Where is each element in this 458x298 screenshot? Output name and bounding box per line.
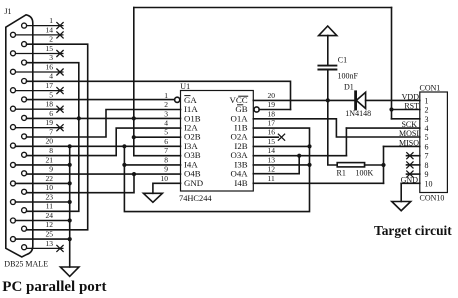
svg-text:11: 11 xyxy=(46,202,53,211)
wire U1 pin5 lead xyxy=(134,136,181,138)
node VCC power symbol xyxy=(319,26,337,36)
svg-text:10: 10 xyxy=(425,179,433,188)
pin 14 lead DB25 xyxy=(16,34,64,36)
no-connect X CON1 pin 9 xyxy=(406,171,413,178)
pin numbers DB25 1-25 xyxy=(46,16,54,248)
svg-text:9: 9 xyxy=(49,165,53,174)
svg-text:24: 24 xyxy=(46,211,54,220)
junction R1 right lead on MISO drop xyxy=(381,163,385,167)
svg-text:20: 20 xyxy=(268,91,276,100)
wire CON1 pin2 RST lead xyxy=(392,109,420,111)
wire R1 right lead xyxy=(365,164,384,166)
svg-text:2: 2 xyxy=(425,106,429,115)
pin GB bubble xyxy=(254,107,259,112)
svg-text:19: 19 xyxy=(268,100,276,109)
junction U1 pin13 on GND input bus xyxy=(307,163,311,167)
resistor R1 body xyxy=(337,163,364,167)
svg-text:6: 6 xyxy=(425,142,429,151)
junction DB25 pin22 on GND bus xyxy=(68,181,72,185)
wire DB25 pin25 xyxy=(15,238,69,240)
pin numbers CON1 1-10 xyxy=(425,96,433,188)
pin 19 circle DB25 xyxy=(11,125,16,130)
svg-text:25: 25 xyxy=(46,230,54,239)
no-connect X CON1 pin 7 xyxy=(406,152,413,159)
wire MISO drop V3 xyxy=(383,146,385,183)
wire DB25 pin4 to GB enable row xyxy=(27,81,291,109)
svg-text:MISO: MISO xyxy=(399,139,419,148)
wire D1 anode to CON1 VDD xyxy=(366,99,420,101)
svg-text:18: 18 xyxy=(46,100,54,109)
no-connect X DB25 pin 15 xyxy=(56,50,63,57)
pin 16 circle DB25 xyxy=(11,69,16,74)
ground symbol below DB25 xyxy=(60,267,79,276)
net name labels xyxy=(399,92,419,184)
svg-text:C1: C1 xyxy=(338,55,347,64)
pin no-connect stub lines DB25 xyxy=(16,26,64,249)
ground symbol below U1 xyxy=(143,193,162,202)
wire DB25 pin6 to U1 pin3 xyxy=(27,117,181,119)
svg-text:PC parallel port: PC parallel port xyxy=(2,279,106,295)
svg-text:12: 12 xyxy=(46,220,54,229)
junction DB25 pin25 on GND bus xyxy=(68,237,72,241)
no-connect X DB25 pin 14 xyxy=(56,31,63,38)
wire U1 pin20 VCC row xyxy=(253,99,355,101)
junction at U1 pin5 row xyxy=(132,135,136,139)
svg-text:1: 1 xyxy=(49,16,53,25)
svg-text:7: 7 xyxy=(164,146,168,155)
svg-text:8: 8 xyxy=(49,146,53,155)
pin 16 lead DB25 xyxy=(16,71,64,73)
pin CON1 pin9 stub xyxy=(407,173,420,175)
pin 17 circle DB25 xyxy=(11,88,16,93)
no-connect X marks xyxy=(56,22,413,252)
no-connect X DB25 pin 1 xyxy=(56,22,63,29)
svg-text:21: 21 xyxy=(46,155,54,164)
junction DB25 pin24 on GND bus xyxy=(68,218,72,222)
wire U1 pin7 jog xyxy=(134,137,181,156)
pin 1 lead DB25 xyxy=(27,25,64,27)
pin 9 circle DB25 xyxy=(22,171,27,176)
overline GB xyxy=(237,104,243,106)
pin 20 circle DB25 xyxy=(11,143,16,148)
svg-text:U1: U1 xyxy=(180,82,190,91)
svg-text:2: 2 xyxy=(49,35,53,44)
pin GA bubble xyxy=(175,97,180,102)
pin 2 circle DB25 xyxy=(22,42,27,47)
junction GND tap at U1 I4A row xyxy=(122,163,126,167)
svg-text:3: 3 xyxy=(164,109,168,118)
wire CON1 pin10 to ground xyxy=(401,182,420,184)
op-amp CON1 box xyxy=(420,92,448,193)
junction DB25 pin20 on GND bus xyxy=(68,144,72,148)
wire VCC symbol stem xyxy=(327,36,329,66)
wire DB25 pin8 to U1 pin4 xyxy=(27,128,181,156)
svg-text:18: 18 xyxy=(268,109,276,118)
svg-text:15: 15 xyxy=(46,44,54,53)
wire DB25 pin7 to U1 pin2 xyxy=(27,110,181,138)
wire U1 pin15 lead xyxy=(253,145,309,147)
svg-text:22: 22 xyxy=(46,174,54,183)
svg-text:J1: J1 xyxy=(4,7,11,16)
svg-text:VDD: VDD xyxy=(402,92,420,101)
wire U1 pin11 I4B row xyxy=(253,182,383,184)
pin 1 circle DB25 xyxy=(22,23,27,28)
DB25 pin circles left column pins 14-25 xyxy=(11,32,16,241)
wire DB25 pin10 joins pin9 row xyxy=(27,174,135,193)
pin 4 circle DB25 xyxy=(22,79,27,84)
pin 22 circle DB25 xyxy=(11,181,16,186)
junction RST rail at CON1 pin2 xyxy=(389,107,393,111)
svg-text:7: 7 xyxy=(425,152,429,161)
pin 6 circle DB25 xyxy=(22,115,27,120)
svg-text:3: 3 xyxy=(425,115,429,124)
svg-text:CON1: CON1 xyxy=(420,83,441,92)
pin 15 circle DB25 xyxy=(11,51,16,56)
svg-text:5: 5 xyxy=(164,128,168,137)
no-connect X CON1 pin 8 xyxy=(406,161,413,168)
svg-text:MOSI: MOSI xyxy=(399,129,419,138)
overline GA xyxy=(184,95,190,97)
svg-text:10: 10 xyxy=(161,174,169,183)
pin 3 circle DB25 xyxy=(22,60,27,65)
wire DB25 pin2 to pin12 loopback xyxy=(27,44,88,230)
pin 11 circle DB25 xyxy=(22,208,27,213)
svg-text:7: 7 xyxy=(49,127,53,136)
DB25 pin circles right column pins 1-13 xyxy=(22,23,27,250)
junction RESET net at DB25 pin6 row xyxy=(77,116,81,120)
svg-text:9: 9 xyxy=(164,165,168,174)
pin 13 circle DB25 xyxy=(22,245,27,250)
svg-text:CON10: CON10 xyxy=(420,194,445,203)
pin numbers U1 left 1-10 xyxy=(161,91,169,183)
wire DB25 pin3 to pin11 xyxy=(27,63,79,212)
svg-text:DB25 MALE: DB25 MALE xyxy=(4,260,48,269)
junction DB25 pin10 riser on pin9 row xyxy=(132,172,136,176)
junction GND tap at U1 I3A row xyxy=(122,144,126,148)
svg-text:4: 4 xyxy=(425,124,429,133)
wire C1 lower stem V1 xyxy=(328,70,337,166)
pin CON1 pin7 stub xyxy=(407,155,420,157)
pin 10 circle DB25 xyxy=(22,189,27,194)
wire CON1 pin3 lead xyxy=(392,118,420,120)
junction U1 pin12 tie on pin14 row xyxy=(297,154,301,158)
pin 23 circle DB25 xyxy=(11,200,16,205)
ground symbol below CON1 xyxy=(392,202,411,211)
wire SCK drop V2 xyxy=(345,128,347,156)
wire rail left vertical xyxy=(133,8,135,138)
svg-text:12: 12 xyxy=(268,165,276,174)
svg-text:SCK: SCK xyxy=(401,120,417,129)
capacitor C1 plates xyxy=(318,65,336,67)
connector J1 DB25 body xyxy=(6,15,33,257)
pin 12 circle DB25 xyxy=(22,226,27,231)
op-amp U1 box 74HC244 xyxy=(181,91,254,192)
diode D1 1N4148 xyxy=(356,92,365,108)
no-connect X DB25 pin 19 xyxy=(56,124,63,131)
svg-text:3: 3 xyxy=(49,53,53,62)
svg-text:10: 10 xyxy=(46,183,54,192)
pin names U1 right VCC..I4B xyxy=(230,95,249,188)
pin 24 circle DB25 xyxy=(11,218,16,223)
wire DB25 pin24 xyxy=(15,220,69,222)
svg-text:100nF: 100nF xyxy=(338,72,359,81)
no-connect X DB25 pin 18 xyxy=(56,106,63,113)
svg-text:13: 13 xyxy=(46,239,54,248)
pin CON1 pin8 stub xyxy=(407,164,420,166)
pin 18 circle DB25 xyxy=(11,106,16,111)
junction C1 stem on VCC wire xyxy=(326,98,330,102)
svg-text:8: 8 xyxy=(164,155,168,164)
wire U1 pin18 O1A to MOSI xyxy=(253,119,419,137)
wire DB25 pin9 to U1 pin9 xyxy=(27,173,181,175)
svg-text:16: 16 xyxy=(46,62,54,71)
junction U1 pin15 on GND input bus xyxy=(307,144,311,148)
wire DB25 pin20 ground row to U1 pin6 xyxy=(15,145,180,147)
pin 15 lead DB25 xyxy=(16,53,64,55)
wire DB25 pin23 xyxy=(15,201,69,203)
no-connect X DB25 pin 16 xyxy=(56,69,63,76)
pin 18 lead DB25 xyxy=(16,108,64,110)
wire U1 pin10 to ground xyxy=(153,183,181,193)
wire ground tap to U1 pin8 xyxy=(124,146,180,165)
svg-text:9: 9 xyxy=(425,170,429,179)
svg-text:Target circuit: Target circuit xyxy=(374,223,452,238)
svg-text:R1: R1 xyxy=(337,168,346,177)
svg-text:100K: 100K xyxy=(356,168,374,177)
pin 13 lead DB25 xyxy=(27,247,64,249)
pin names U1 left GA..GND xyxy=(184,95,203,188)
svg-text:19: 19 xyxy=(46,118,54,127)
svg-text:1: 1 xyxy=(164,91,168,100)
svg-text:74HC244: 74HC244 xyxy=(179,194,212,203)
pin numbers U1 right 20-11 xyxy=(268,91,276,183)
svg-text:I4B: I4B xyxy=(234,178,247,188)
junction DB25 pin23 on GND bus xyxy=(68,200,72,204)
svg-text:15: 15 xyxy=(268,137,276,146)
svg-text:4: 4 xyxy=(49,72,53,81)
svg-text:17: 17 xyxy=(268,119,276,128)
junction RESET rail at U1 pin3 xyxy=(132,116,136,120)
wire DB25 pin21 xyxy=(15,164,69,166)
svg-text:14: 14 xyxy=(268,146,276,155)
pin 8 circle DB25 xyxy=(22,152,27,157)
pin 7 circle DB25 xyxy=(22,134,27,139)
svg-text:1: 1 xyxy=(425,96,429,105)
wire GB row to V1 xyxy=(259,109,290,111)
svg-text:5: 5 xyxy=(425,133,429,142)
no-connect X DB25 pin 17 xyxy=(56,87,63,94)
svg-text:GND: GND xyxy=(401,176,419,185)
pin 25 circle DB25 xyxy=(11,237,16,242)
pin U1 pin16 no-connect stub xyxy=(253,136,278,138)
svg-text:13: 13 xyxy=(268,155,276,164)
svg-text:4: 4 xyxy=(164,119,168,128)
svg-text:8: 8 xyxy=(425,161,429,170)
svg-text:14: 14 xyxy=(46,25,54,34)
svg-text:GND: GND xyxy=(184,178,203,188)
wire DB25 pin22 xyxy=(15,182,69,184)
wire U1 pin14 output row xyxy=(253,155,346,157)
wire DB25 pin5 to GA bubble xyxy=(27,99,175,101)
pin 14 circle DB25 xyxy=(11,32,16,37)
svg-text:23: 23 xyxy=(46,192,54,201)
svg-text:D1: D1 xyxy=(344,83,354,92)
junction DB25 pin21 on GND bus xyxy=(68,163,72,167)
svg-text:17: 17 xyxy=(46,81,54,90)
svg-text:20: 20 xyxy=(46,137,54,146)
wire U1 pin13 lead xyxy=(253,164,309,166)
wire rail right vertical xyxy=(391,8,393,119)
svg-text:16: 16 xyxy=(268,128,276,137)
wire SCK row xyxy=(346,127,419,129)
no-connect X U1 pin 16 xyxy=(278,134,285,141)
no-connect X DB25 pin 13 xyxy=(56,245,63,252)
wire U1 pin12 jog up xyxy=(253,156,299,174)
wire ground bus xyxy=(69,146,71,267)
wire top rail RST net xyxy=(134,7,392,9)
svg-text:5: 5 xyxy=(49,90,53,99)
pin 21 circle DB25 xyxy=(11,162,16,167)
svg-text:6: 6 xyxy=(49,109,53,118)
pin 17 lead DB25 xyxy=(16,90,64,92)
svg-text:1N4148: 1N4148 xyxy=(345,109,371,118)
pin 5 circle DB25 xyxy=(22,97,27,102)
svg-text:RST: RST xyxy=(404,101,419,110)
wire ground link under U1 to input bus xyxy=(124,128,309,212)
svg-text:6: 6 xyxy=(164,137,168,146)
svg-text:2: 2 xyxy=(164,100,168,109)
pin 19 lead DB25 xyxy=(16,127,64,129)
svg-text:11: 11 xyxy=(268,174,275,183)
wire MISO lead xyxy=(384,145,420,147)
